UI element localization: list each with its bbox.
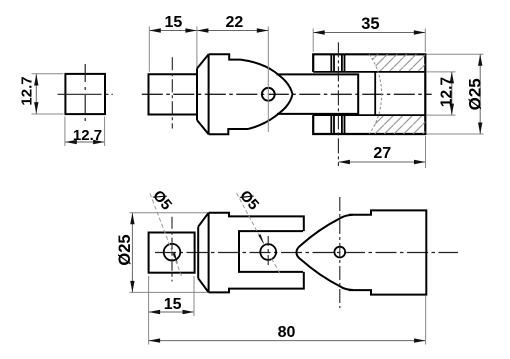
shaft (bottom view): [149, 233, 195, 273]
svg-text:Ø5: Ø5: [149, 187, 175, 213]
svg-text:Ø25: Ø25: [465, 78, 484, 110]
clamp slit lines top block: [331, 54, 344, 72]
extension/centerline through dome hole: [267, 27, 269, 133]
dome nose of left part: [241, 60, 293, 129]
svg-text:Ø5: Ø5: [236, 187, 262, 213]
bore line top: [313, 71, 425, 73]
fork cylinder outer rectangle (section): [313, 54, 425, 134]
clamp screw axis: [337, 42, 339, 166]
dimension 80: [149, 340, 426, 342]
hole 1 vertical centerline: [171, 217, 173, 282]
svg-text:22: 22: [226, 14, 244, 31]
square part 12.7x12.7: [65, 74, 105, 114]
dimension 35 (top): [313, 32, 425, 34]
blade (tongue): [277, 74, 359, 114]
dimension D25 (fork): [427, 53, 484, 55]
svg-text:80: 80: [278, 324, 296, 341]
hole in dome: [262, 88, 275, 101]
square horizontal centerline: [58, 93, 113, 95]
shaft of left part: [149, 74, 198, 114]
blade flat (bottom view): [239, 231, 303, 272]
slot end: [374, 72, 376, 115]
svg-text:Ø25: Ø25: [116, 234, 134, 265]
dimension 15 (bottom): [149, 311, 194, 313]
svg-text:27: 27: [373, 145, 391, 162]
bell / cone of left part: [197, 54, 248, 134]
clamp screw hole circle 3: [334, 247, 345, 258]
main axis centerline (bottom view): [155, 252, 458, 254]
dimension 22 (top): [197, 30, 268, 32]
cross-hole circle 1: [164, 244, 181, 261]
svg-text:15: 15: [164, 296, 182, 313]
cross-hole circle 2: [260, 244, 276, 260]
cross-hole axis in shaft: [171, 57, 173, 128]
main axis centerline (top view): [142, 93, 432, 95]
bore line bottom: [313, 114, 425, 116]
svg-text:12.7: 12.7: [73, 127, 102, 144]
dimension 12.7 vertical (square): [35, 74, 37, 114]
dimension D25 (bottom left): [130, 212, 208, 214]
fork body (bottom view): [349, 210, 426, 294]
fork nose curve (bottom view): [296, 215, 353, 290]
svg-text:15: 15: [165, 14, 183, 31]
screw axis vertical (bottom view): [339, 197, 341, 308]
dimension 12.7 (fork bore): [427, 71, 456, 73]
hole 2 vertical centerline: [267, 236, 269, 268]
leader D5 hole 1: [150, 194, 182, 277]
leader D5 hole 2: [237, 193, 265, 245]
dimension 15 (top): [149, 30, 197, 32]
svg-text:12.7: 12.7: [19, 76, 36, 105]
square vertical centerline: [84, 64, 86, 124]
svg-text:12.7: 12.7: [439, 77, 456, 107]
slot recess curve: [369, 54, 381, 134]
hatch bottom strip: [369, 115, 425, 134]
dimension 12.7 horizontal (square): [65, 141, 104, 143]
clamp slit lines bottom block: [331, 115, 344, 134]
bell (bottom view): [198, 213, 304, 293]
svg-text:35: 35: [361, 15, 379, 33]
dimension 27: [338, 161, 425, 163]
hatch top strip: [369, 54, 425, 72]
